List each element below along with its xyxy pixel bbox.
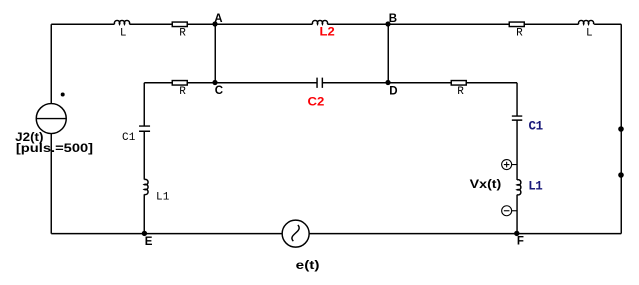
svg-text:L1: L1 — [156, 192, 170, 204]
svg-text:L1: L1 — [528, 179, 543, 193]
svg-text:R: R — [179, 86, 186, 98]
svg-text:D: D — [389, 85, 397, 97]
svg-text:L2: L2 — [320, 25, 336, 39]
svg-text:R: R — [457, 86, 464, 98]
svg-text:[puls.=500]: [puls.=500] — [16, 141, 93, 155]
svg-text:C1: C1 — [529, 119, 544, 133]
svg-text:C1: C1 — [122, 132, 136, 144]
svg-text:R: R — [179, 28, 186, 40]
svg-text:C: C — [215, 85, 223, 97]
svg-text:e(t): e(t) — [296, 258, 320, 272]
svg-text:A: A — [214, 13, 222, 25]
svg-text:C2: C2 — [308, 95, 325, 109]
svg-text:R: R — [516, 28, 523, 40]
svg-text:L: L — [586, 28, 593, 40]
svg-text:E: E — [145, 236, 153, 248]
svg-text:B: B — [389, 13, 397, 25]
svg-text:F: F — [517, 236, 524, 248]
svg-text:Vx(t): Vx(t) — [470, 177, 502, 191]
svg-text:L: L — [120, 28, 127, 40]
